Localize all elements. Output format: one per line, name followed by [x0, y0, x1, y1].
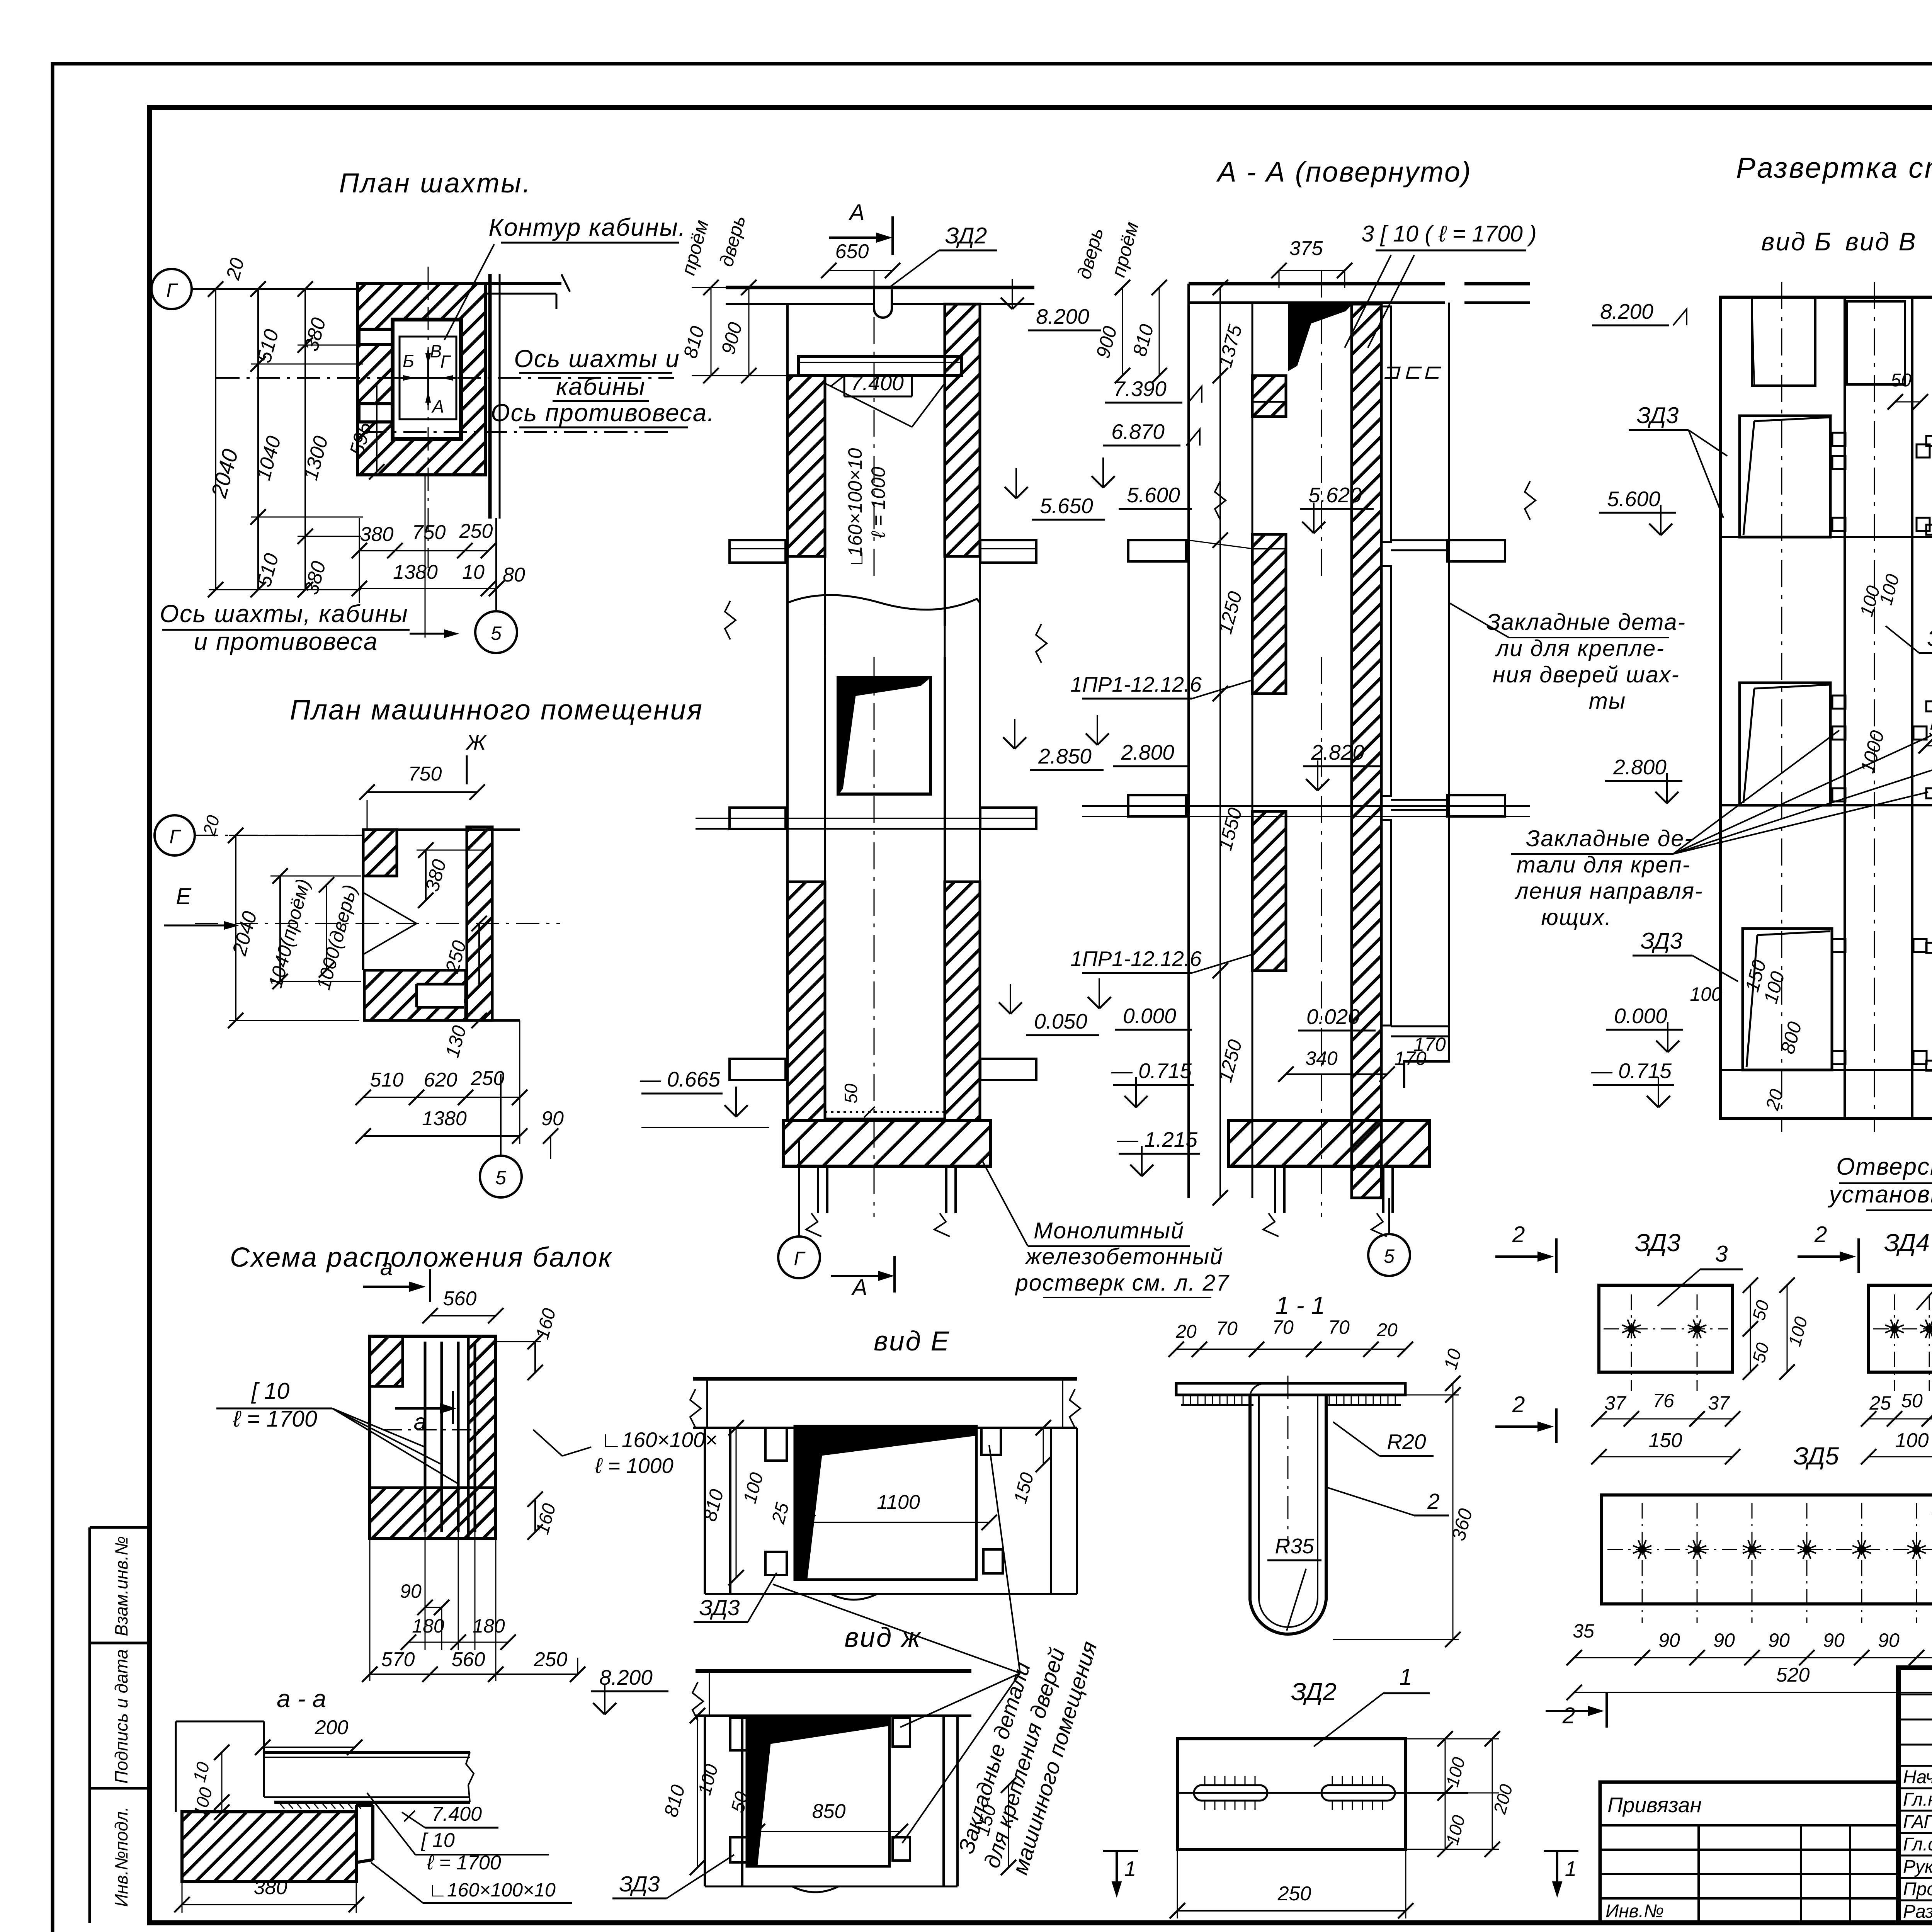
machine room bottom dim 510 620 250: [363, 1097, 520, 1098]
a-a anchor hatch ticks under beam: [280, 1803, 284, 1809]
svg-text:250: 250: [471, 1067, 505, 1090]
svg-text:70: 70: [1216, 1318, 1238, 1339]
svg-text:ЗД5: ЗД5: [1927, 626, 1932, 651]
svg-text:2.800: 2.800: [1121, 740, 1174, 764]
svg-text:А - А (повернуто): А - А (повернуто): [1216, 156, 1472, 188]
svg-text:Закладные дета-: Закладные дета-: [1486, 609, 1686, 635]
left wall hatched upper: [787, 376, 825, 556]
dim chain 2040 machine room: [235, 835, 236, 1020]
svg-text:620: 620: [424, 1069, 457, 1091]
svg-text:ЗД3: ЗД3: [1635, 1229, 1680, 1257]
left section right wall outer line: [979, 304, 981, 556]
beam block hatch top-left: [370, 1336, 403, 1386]
svg-text:560: 560: [443, 1287, 477, 1310]
svg-text:[ 10: [ 10: [421, 1829, 455, 1852]
svg-text:8.200: 8.200: [1036, 304, 1089, 328]
svg-text:2.850: 2.850: [1038, 744, 1092, 768]
svg-text:5.650: 5.650: [1040, 494, 1093, 518]
a-a leader from channel to beam: [367, 1793, 415, 1855]
machine room top-left hatched block: [363, 830, 397, 876]
vid E door outline: [795, 1426, 976, 1580]
axis circle 5 machine room: [480, 1156, 522, 1197]
door frame rect middle: [838, 678, 930, 794]
development top door rect panel B: [1752, 297, 1815, 386]
svg-text:1ПР1-12.12.6: 1ПР1-12.12.6: [1070, 947, 1202, 971]
svg-text:1100: 1100: [877, 1491, 920, 1514]
svg-text:Ж: Ж: [465, 730, 487, 754]
svg-text:750: 750: [412, 521, 446, 544]
svg-text:90: 90: [1878, 1629, 1900, 1651]
svg-text:А: А: [851, 1275, 867, 1300]
3D2 center line: [1177, 1792, 1468, 1794]
svg-text:50: 50: [1891, 370, 1912, 391]
dim marks door: [824, 657, 826, 882]
lintel beam over door: [799, 357, 961, 376]
dim 10 and 100 vertical a-a: [221, 1752, 223, 1812]
svg-text:37: 37: [1604, 1392, 1627, 1414]
svg-text:Ось противовеса.: Ось противовеса.: [491, 399, 715, 427]
title block outer box: [1898, 1668, 1932, 1923]
svg-text:Разраб.: Разраб.: [1903, 1901, 1932, 1922]
leader kontur kabiny: [444, 244, 494, 340]
development axis dash-dot verticals: [1781, 282, 1782, 1132]
signature table row lines empty part: [1898, 1694, 1932, 1696]
corridor wall end arrow: [561, 274, 570, 292]
svg-text:Гл.спец.: Гл.спец.: [1903, 1834, 1932, 1855]
A-A foundation hatched: [1229, 1121, 1430, 1166]
vid Zh bottom line: [705, 1886, 957, 1888]
shaft plan left wall niche white notch top: [359, 329, 393, 345]
A-A lintel hatch small 1: [1252, 401, 1286, 403]
svg-text:560: 560: [452, 1648, 485, 1671]
dim chain 1040 proyom machine room: [279, 876, 281, 981]
leaders mash pomeshch: [900, 1673, 1020, 1727]
svg-text:Закладные де-: Закладные де-: [1526, 826, 1693, 851]
vid Zh door outline: [747, 1717, 889, 1866]
svg-text:ния дверей шах-: ния дверей шах-: [1493, 662, 1680, 687]
svg-text:ления направля-: ления направля-: [1514, 878, 1703, 904]
svg-text:90: 90: [1823, 1629, 1845, 1651]
horizontal bar details floor2: [1926, 701, 1932, 711]
svg-text:850: 850: [812, 1800, 846, 1823]
vid Zh right wall lines: [942, 1716, 945, 1886]
axis circle G machine room: [155, 815, 195, 855]
3D4 center dash lines: [1873, 1328, 1932, 1330]
dim chain vertical 510 1040 510: [257, 289, 259, 590]
shaft plan wall hatched block: [357, 284, 486, 475]
door opening floor2 panel B: [1740, 683, 1830, 805]
svg-text:— 0.715: — 0.715: [1591, 1059, 1672, 1083]
dash axis 1-1: [1287, 1376, 1289, 1546]
svg-text:Рук. гр.: Рук. гр.: [1903, 1857, 1932, 1877]
svg-text:37: 37: [1708, 1392, 1730, 1414]
svg-text:2: 2: [1427, 1489, 1440, 1514]
svg-text:100: 100: [1895, 1429, 1929, 1452]
anchor U detail in slab: [874, 289, 892, 318]
svg-text:650: 650: [835, 240, 869, 263]
svg-text:90: 90: [541, 1107, 564, 1130]
vid Zh anchor rects: [730, 1718, 748, 1750]
svg-text:ЗД2: ЗД2: [945, 223, 987, 248]
svg-text:ЗД3: ЗД3: [699, 1595, 740, 1620]
svg-text:0.050: 0.050: [1034, 1009, 1087, 1033]
A-A floor slab stubs at 5.600: [1128, 540, 1186, 561]
dim 750 machine room top: [367, 791, 477, 793]
door opening floor1 panel B: [1740, 416, 1830, 537]
svg-text:1: 1: [1565, 1857, 1577, 1881]
ext lines beams bottom: [369, 1538, 371, 1681]
A-A floor double lines right gap 5.600: [1391, 539, 1449, 541]
svg-text:20: 20: [1175, 1321, 1197, 1342]
svg-text:Е: Е: [176, 884, 191, 909]
A-A hatched pier 1: [1252, 376, 1286, 417]
3D5 weld bursts row: [1639, 1546, 1645, 1553]
svg-text:ℓ = 1700: ℓ = 1700: [427, 1852, 501, 1874]
svg-text:ростверк см. л. 27: ростверк см. л. 27: [1015, 1270, 1230, 1296]
beam block hatch bottom: [370, 1488, 496, 1538]
a-a top beam flange: [264, 1751, 470, 1754]
svg-text:[ 10: [ 10: [251, 1378, 290, 1404]
svg-text:⊏: ⊏: [1423, 359, 1442, 383]
3D2 plate rect: [1177, 1739, 1406, 1849]
svg-text:кабины: кабины: [556, 372, 646, 400]
svg-text:План машинного помещения: План машинного помещения: [290, 694, 703, 726]
bottom dim line 380 750 250: [359, 550, 488, 551]
svg-text:520: 520: [1776, 1664, 1810, 1686]
svg-text:380: 380: [254, 1876, 287, 1899]
small anchor squares row floor1: [1832, 433, 1845, 446]
svg-text:вид Е: вид Е: [874, 1326, 950, 1357]
door opening middle black wedge: [838, 678, 930, 794]
svg-text:Г: Г: [794, 1248, 806, 1269]
svg-text:тали для креп-: тали для креп-: [1517, 852, 1691, 878]
svg-text:ЗД5: ЗД5: [1793, 1442, 1839, 1470]
svg-text:0.000: 0.000: [1123, 1004, 1176, 1028]
3D5 center dash lines: [1607, 1549, 1932, 1550]
dim chain vertical 380 1300 380: [304, 289, 306, 590]
vid Zh left wall lines: [704, 1716, 706, 1886]
svg-text:750: 750: [408, 763, 442, 785]
svg-text:ЗД3: ЗД3: [1641, 928, 1683, 954]
door leaf edge line: [842, 696, 855, 789]
dim chain vertical 2040: [215, 289, 216, 590]
vid E left wall lines: [704, 1428, 706, 1594]
3D5 plate rect: [1602, 1495, 1932, 1604]
break squiggle left: [725, 601, 736, 639]
A-A right rail strip segment 2: [1382, 566, 1391, 796]
svg-text:20: 20: [1376, 1320, 1398, 1340]
a-a hatched wall block: [182, 1812, 356, 1881]
vid Zh door leaf edge: [757, 1743, 770, 1866]
A-A hatched pier 3: [1252, 811, 1286, 971]
floor slab stubs at 5.650 level: [730, 540, 786, 563]
svg-text:ГАП: ГАП: [1903, 1812, 1932, 1832]
svg-text:200: 200: [315, 1716, 349, 1739]
3D3 plate rect: [1599, 1285, 1733, 1372]
machine room bottom edge: [363, 1019, 520, 1022]
svg-text:2.800: 2.800: [1613, 755, 1667, 779]
svg-text:520: 520: [1929, 718, 1932, 741]
svg-text:90: 90: [400, 1580, 422, 1602]
door opening floor3 panel B: [1743, 929, 1832, 1070]
vertical axis dash line left section: [874, 270, 875, 580]
svg-text:7.400: 7.400: [850, 371, 904, 395]
T profile stem outer: [1250, 1395, 1326, 1634]
svg-text:ЗД4: ЗД4: [1884, 1229, 1930, 1257]
svg-text:Г: Г: [440, 352, 451, 372]
T profile curve hatch R20: [1250, 1383, 1265, 1395]
svg-text:а - а: а - а: [277, 1685, 326, 1713]
3D4 weld bursts: [1891, 1326, 1898, 1332]
svg-text:Г: Г: [166, 279, 178, 301]
shaft plan right partition double line: [488, 274, 492, 519]
svg-text:35: 35: [1573, 1620, 1594, 1642]
A-A pier2 lintel lines: [1252, 548, 1286, 549]
svg-text:и противовеса: и противовеса: [194, 628, 378, 655]
A-A top slab: [1189, 282, 1445, 286]
svg-text:76: 76: [1653, 1390, 1674, 1412]
foundation slab hatched: [783, 1121, 990, 1166]
svg-text:вид Б: вид Б: [1761, 227, 1832, 256]
svg-text:160×100×10: 160×100×10: [844, 448, 866, 556]
svg-text:180: 180: [473, 1615, 505, 1637]
svg-text:5: 5: [495, 1167, 506, 1189]
svg-text:1 - 1: 1 - 1: [1276, 1291, 1325, 1319]
development outer rectangle: [1720, 297, 1932, 1118]
left margin strip cell lines: [88, 1527, 91, 1923]
axis circle 5 A-A bottom: [1368, 1234, 1410, 1276]
A-A right rail strip segment 1: [1382, 306, 1391, 542]
svg-text:2: 2: [1814, 1222, 1827, 1247]
leaders from channel label to beams: [332, 1408, 458, 1484]
dim 250 machine room: [478, 923, 480, 985]
left section walls below break: [786, 556, 789, 1121]
machine room top edge: [363, 828, 520, 831]
svg-text:2.820: 2.820: [1311, 740, 1364, 764]
svg-text:50: 50: [841, 1083, 861, 1104]
svg-text:вид ж: вид ж: [844, 1622, 922, 1653]
dim 380 machine room top right: [425, 850, 427, 900]
bottom dim line 1380 10 80: [359, 588, 497, 589]
svg-text:2: 2: [1512, 1392, 1525, 1417]
svg-text:Взам.инв.№: Взам.инв.№: [111, 1536, 131, 1636]
svg-text:7.400: 7.400: [432, 1803, 482, 1825]
dim chain 1000 dver machine room: [326, 885, 327, 970]
arrow to axis: [410, 633, 444, 635]
svg-text:Контур кабины.: Контур кабины.: [488, 213, 686, 241]
svg-text:90: 90: [1768, 1629, 1790, 1651]
svg-text:0.000: 0.000: [1614, 1004, 1667, 1028]
svg-text:5.620: 5.620: [1308, 483, 1362, 507]
svg-text:∟: ∟: [845, 549, 867, 568]
svg-text:10: 10: [462, 561, 485, 583]
svg-text:180: 180: [412, 1615, 444, 1637]
svg-text:7.390: 7.390: [1113, 377, 1167, 401]
svg-text:ℓ = 1000: ℓ = 1000: [595, 1454, 673, 1478]
pit floor dotted line: [825, 1111, 945, 1113]
a-a beam left end vertical: [263, 1721, 265, 1797]
cabin outline outer: [393, 320, 461, 439]
left section left wall outer line: [786, 304, 789, 556]
svg-text:Развертка стен шахты.: Развертка стен шахты.: [1736, 151, 1932, 184]
piles below foundation: [817, 1166, 819, 1213]
machine room door opening arrows: [363, 893, 417, 923]
vid E top slab: [693, 1377, 1077, 1381]
svg-text:∟160×100×: ∟160×100×: [601, 1428, 718, 1452]
svg-text:70: 70: [1328, 1316, 1350, 1338]
svg-text:1380: 1380: [393, 561, 438, 583]
svg-text:Б: Б: [403, 351, 414, 371]
dim 595 chain: [376, 384, 378, 472]
3D3 weld bursts: [1628, 1326, 1634, 1332]
ext lines machine room left chains: [229, 835, 361, 836]
svg-text:5.600: 5.600: [1127, 483, 1180, 507]
svg-text:1: 1: [1400, 1664, 1412, 1690]
vid Zh door black wedge: [747, 1717, 889, 1866]
floor slab stubs at 0.050: [730, 1059, 786, 1080]
svg-text:8.200: 8.200: [599, 1665, 653, 1689]
svg-text:380: 380: [360, 523, 394, 546]
vid E anchor rects: [765, 1428, 787, 1461]
axis circle 5 shaft plan: [475, 611, 517, 653]
T profile anchor combs: [1183, 1395, 1184, 1405]
svg-text:ЗД3: ЗД3: [1637, 403, 1679, 428]
svg-text:Инв.№: Инв.№: [1605, 1901, 1664, 1922]
lower anchor squares floor3: [1832, 939, 1845, 952]
floor slab at 2.850: [730, 808, 786, 829]
svg-text:25: 25: [1869, 1392, 1891, 1414]
A-A right wall hatched full: [1352, 304, 1381, 1198]
svg-text:ЗД3: ЗД3: [619, 1872, 660, 1896]
shaft plan vertical axis dash-dot: [428, 267, 429, 568]
A-A piles: [1274, 1166, 1276, 1213]
svg-text:ли для крепле-: ли для крепле-: [1495, 636, 1665, 661]
svg-text:ющих.: ющих.: [1541, 905, 1612, 930]
svg-text:1380: 1380: [422, 1107, 467, 1130]
svg-text:5: 5: [491, 622, 502, 644]
dim 160 beams bottom right: [534, 1499, 536, 1532]
svg-text:Привязан: Привязан: [1607, 1793, 1702, 1817]
svg-text:А: А: [848, 200, 864, 225]
svg-text:железобетонный: железобетонный: [1024, 1244, 1223, 1269]
shaft plan left wall niche white notch bottom: [359, 404, 393, 422]
svg-text:Ось шахты, кабины: Ось шахты, кабины: [160, 600, 408, 628]
A-A floor double lines right gap 0.000: [1391, 1026, 1449, 1027]
T profile flange: [1176, 1383, 1405, 1395]
machine room axis horizontal: [195, 923, 560, 924]
svg-text:R20: R20: [1387, 1430, 1426, 1454]
A-A floor double lines right gap 2.800: [1391, 799, 1449, 801]
shaft axis dash-dot horizontal - axis of shaft and cabin: [216, 377, 674, 379]
svg-text:ℓ = 1700: ℓ = 1700: [233, 1406, 317, 1432]
vid E door opening with black wedge: [795, 1426, 976, 1579]
machine room bottom hatched band: [364, 970, 466, 1020]
A-A left wall line: [1187, 284, 1190, 1198]
svg-text:100: 100: [1690, 983, 1722, 1005]
development floor lines: [1720, 536, 1932, 538]
vid Zh top slab: [696, 1669, 971, 1673]
a-a corner angle piece: [355, 1805, 358, 1862]
axis circle G bottom: [778, 1236, 820, 1278]
corridor wall lines top right: [486, 282, 561, 285]
cabin cross arrows: [427, 350, 429, 405]
beam block mid horizontal dash: [383, 1429, 483, 1430]
vid E bottom line: [705, 1593, 1077, 1595]
horizontal bar details floor1: [1926, 436, 1932, 446]
svg-text:90: 90: [1713, 1629, 1735, 1651]
svg-text:Инв.№подл.: Инв.№подл.: [111, 1806, 131, 1907]
right wall hatched upper: [945, 304, 980, 556]
svg-text:R35: R35: [1275, 1534, 1314, 1558]
svg-text:50: 50: [1901, 1390, 1923, 1412]
mid anchor squares floor2: [1832, 696, 1845, 709]
counterweight axis dash-dot: [363, 431, 674, 433]
vid E right wall lines: [1050, 1428, 1052, 1594]
3D2 anchor group right: [1321, 1785, 1395, 1801]
svg-text:установки настилов: установки настилов: [1828, 1181, 1932, 1208]
development vertical dividers: [1844, 297, 1846, 1118]
svg-text:Провер.: Провер.: [1903, 1879, 1932, 1900]
svg-text:Схема расположения балок: Схема расположения балок: [230, 1242, 612, 1273]
svg-text:5.600: 5.600: [1607, 487, 1660, 511]
signature table row lines text part: [1898, 1765, 1932, 1767]
3D4 plate rect: [1869, 1285, 1932, 1372]
svg-text:570: 570: [381, 1648, 415, 1671]
machine room bottom dim 1380 90: [363, 1135, 520, 1137]
3D2 anchor group left: [1194, 1785, 1267, 1801]
svg-text:250: 250: [1277, 1883, 1311, 1905]
dim 560 beams top: [430, 1315, 496, 1316]
horizontal bars floor3: [1926, 943, 1932, 953]
svg-text:170: 170: [1394, 1048, 1427, 1069]
svg-text:375: 375: [1289, 237, 1323, 260]
svg-text:— 0.665: — 0.665: [639, 1067, 720, 1091]
machine room bottom notch white: [417, 984, 464, 1007]
beam channel lines: [424, 1342, 427, 1532]
machine room right hatched wall: [467, 827, 492, 1020]
svg-text:3: 3: [1715, 1241, 1728, 1267]
leaders from channel label: [1345, 255, 1391, 348]
svg-text:90: 90: [1658, 1629, 1680, 1651]
3D3 center dash lines: [1604, 1328, 1728, 1330]
svg-text:510: 510: [370, 1069, 404, 1091]
svg-text:250: 250: [459, 520, 493, 543]
shaft plan inner cavity: [393, 319, 461, 426]
left section top slab lines: [726, 286, 1034, 289]
svg-text:Подпись и дата: Подпись и дата: [111, 1649, 131, 1784]
svg-text:0.020: 0.020: [1306, 1005, 1360, 1029]
A-A black door wedge top: [1289, 304, 1351, 370]
a-a beam right break: [466, 1752, 474, 1802]
machine room outline left wall: [362, 876, 364, 970]
svg-text:Гл.конст.: Гл.конст.: [1903, 1789, 1932, 1810]
svg-text:5: 5: [1384, 1245, 1395, 1267]
cabin outline inner: [400, 337, 456, 419]
3D3 dims right 50 50 100: [1750, 1285, 1751, 1372]
svg-text:3 [ 10 ( ℓ = 1700 ): 3 [ 10 ( ℓ = 1700 ): [1361, 221, 1537, 247]
svg-text:250: 250: [534, 1648, 568, 1671]
A-A right outer wall line: [1448, 303, 1450, 1039]
svg-text:∟160×100×10: ∟160×100×10: [428, 1879, 556, 1901]
svg-text:Монолитный: Монолитный: [1034, 1218, 1184, 1243]
axis line G machine room: [195, 835, 363, 836]
axis line G to plan: [192, 288, 361, 290]
svg-text:80: 80: [503, 564, 525, 586]
svg-text:8.200: 8.200: [1600, 299, 1653, 323]
svg-text:ты: ты: [1589, 688, 1626, 714]
T profile stem inner: [1259, 1395, 1318, 1627]
A-A right rail strip segment 3: [1382, 820, 1391, 1026]
